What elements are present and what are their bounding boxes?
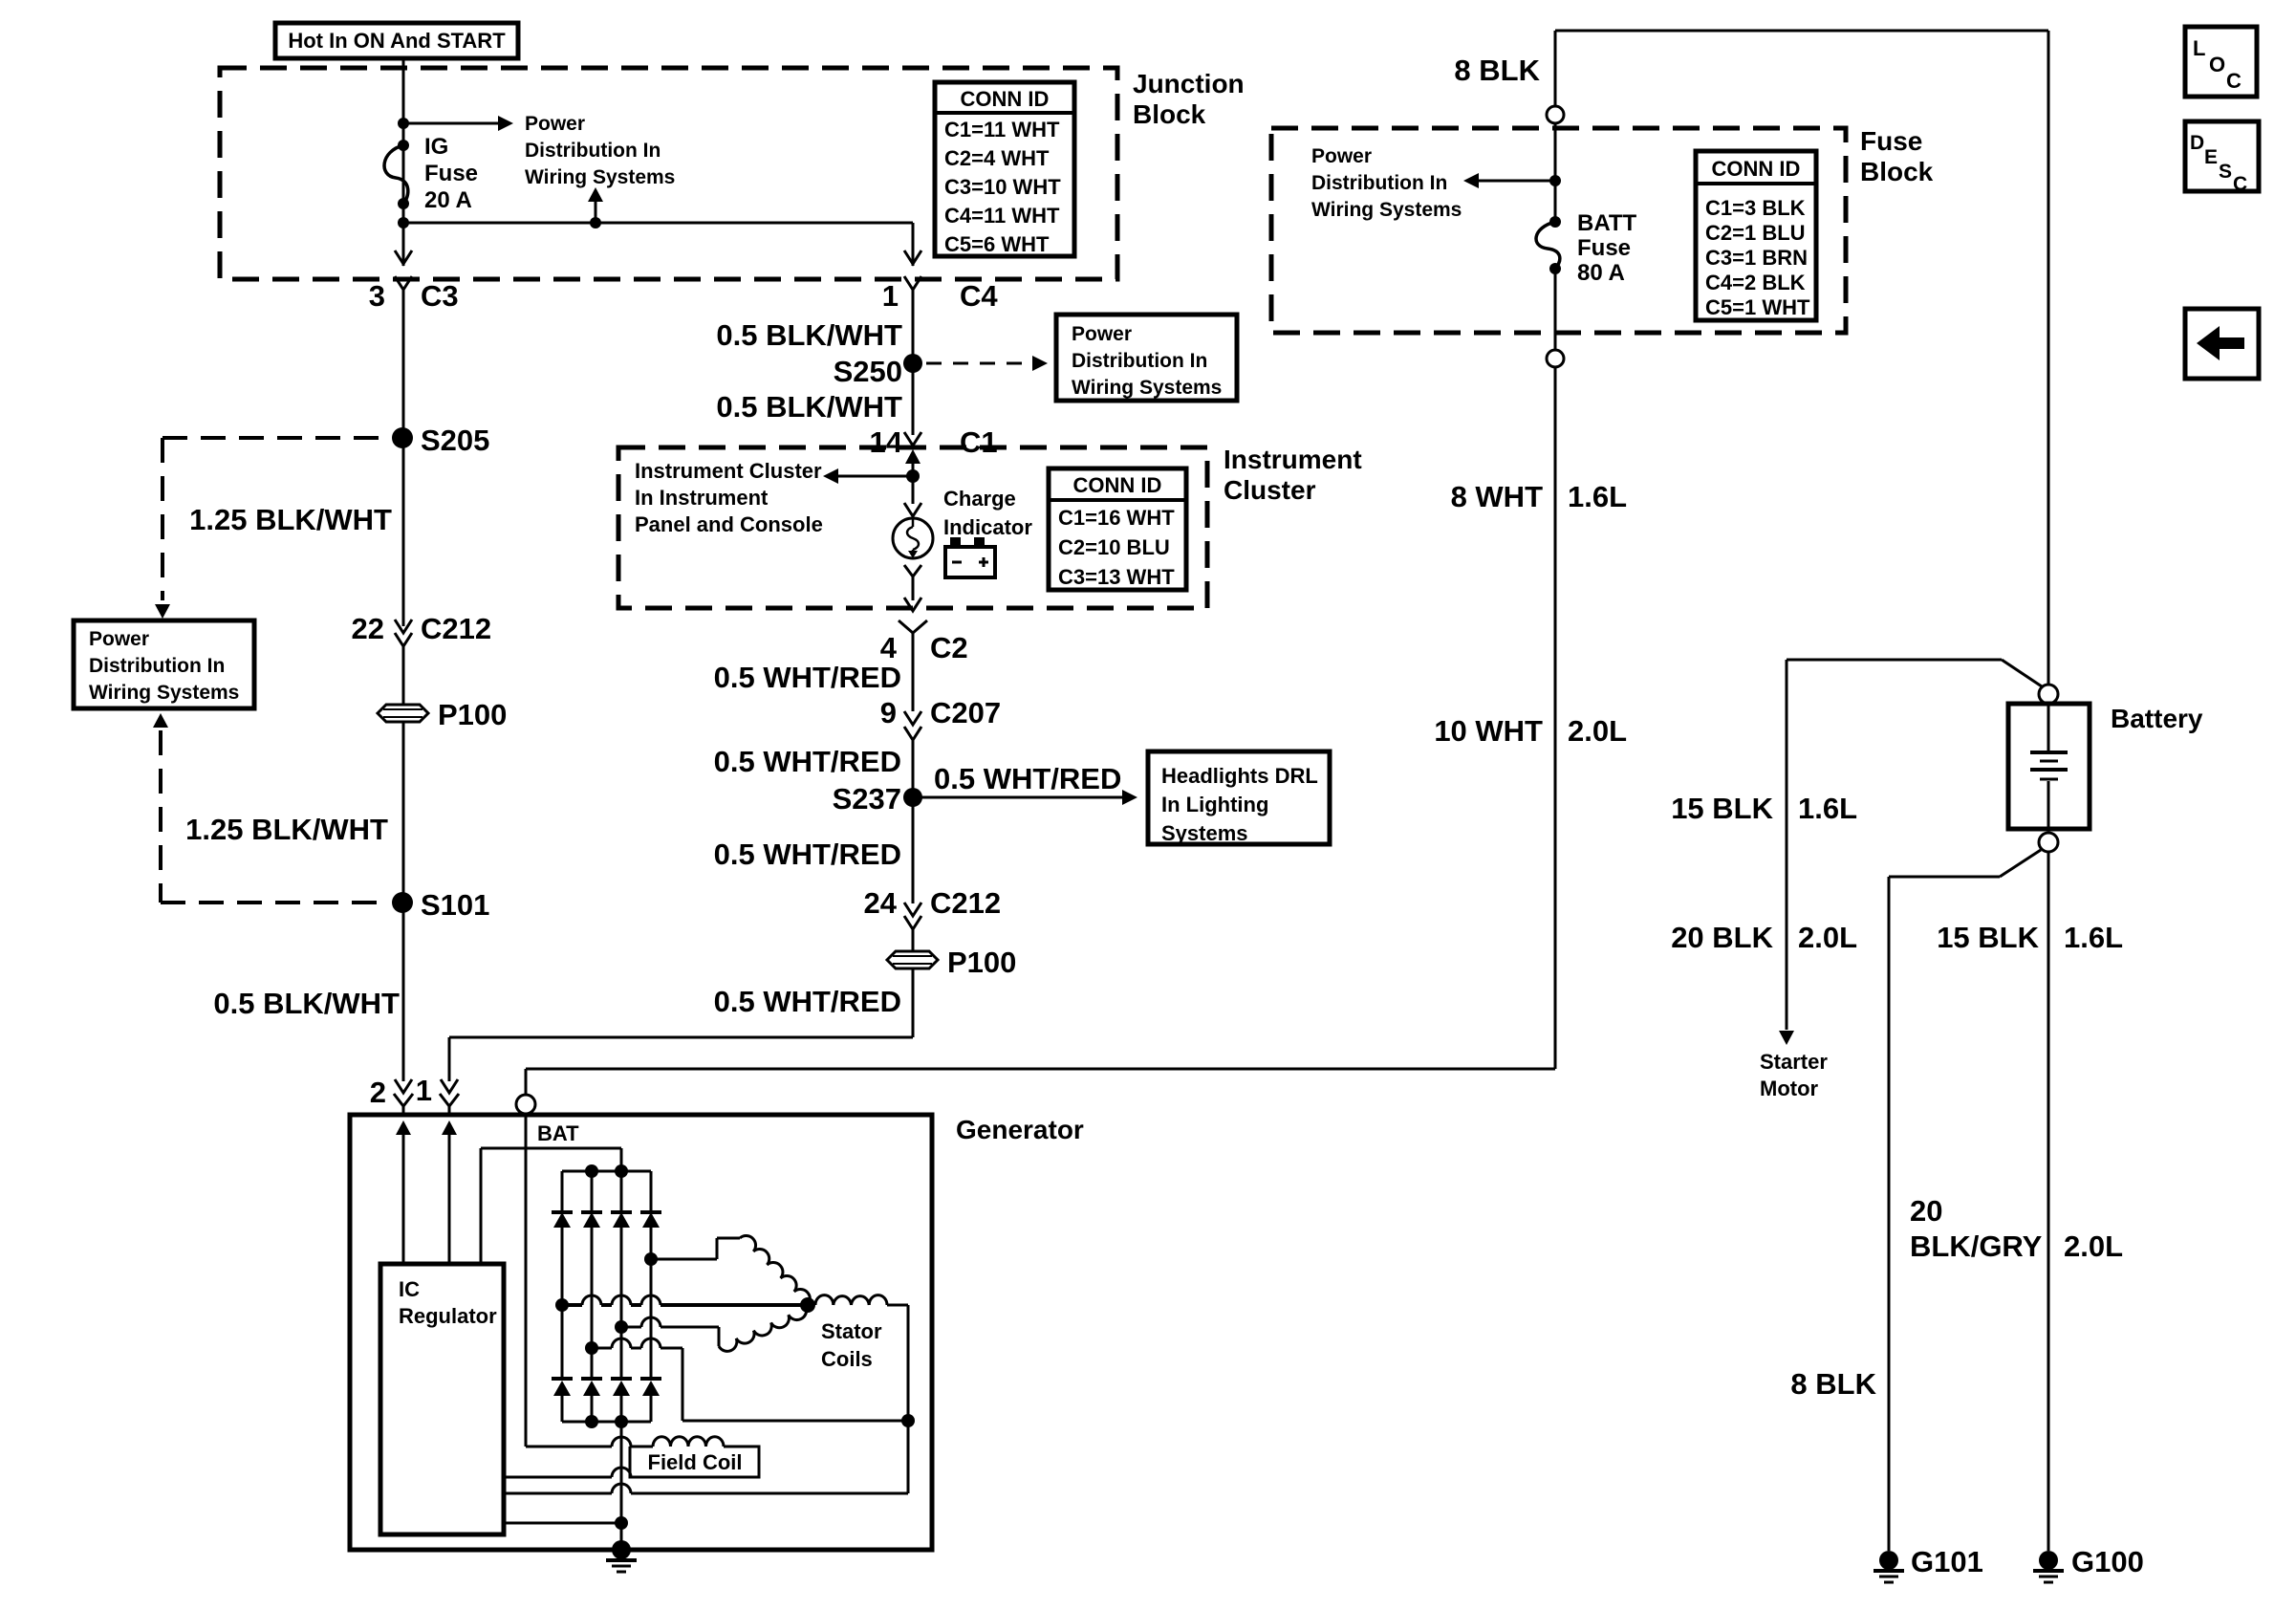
svg-text:C2=10 BLU: C2=10 BLU [1058, 535, 1170, 559]
stator phase A wire [555, 1298, 569, 1312]
CONN ID table (instrument cluster) [1049, 468, 1186, 590]
wire C212 to P100 [402, 646, 405, 705]
svg-text:C1=11 WHT: C1=11 WHT [944, 118, 1060, 141]
svg-text:C212: C212 [930, 886, 1001, 920]
wire from Hot In down into junction block [402, 58, 405, 266]
connector at generator pin 2 [395, 1079, 412, 1093]
svg-text:22: 22 [352, 612, 384, 645]
svg-text:BLK/GRY: BLK/GRY [1910, 1229, 2043, 1263]
svg-text:C4=11 WHT: C4=11 WHT [944, 204, 1060, 228]
svg-text:1.6L: 1.6L [2064, 921, 2123, 954]
svg-text:0.5 BLK/WHT: 0.5 BLK/WHT [716, 318, 902, 352]
svg-text:Battery: Battery [2111, 704, 2203, 733]
arrow up to Wiring Systems text [595, 200, 597, 223]
splice S101 [392, 892, 413, 913]
node: fuse block junction dot [1549, 175, 1561, 186]
svg-text:Generator: Generator [956, 1115, 1084, 1144]
svg-text:BAT: BAT [537, 1121, 579, 1145]
fuse IG Fuse 20 A [398, 140, 409, 151]
battery box [2008, 704, 2090, 829]
svg-text:S237: S237 [833, 782, 901, 816]
svg-text:0.5 WHT/RED: 0.5 WHT/RED [714, 838, 901, 871]
svg-text:Fuse: Fuse [1577, 235, 1631, 261]
svg-text:0.5 WHT/RED: 0.5 WHT/RED [714, 985, 901, 1018]
splice S250 [903, 354, 922, 373]
svg-text:Motor: Motor [1760, 1077, 1819, 1100]
battery pictograph icon [950, 537, 961, 548]
pass-through grommet P100 (middle) [887, 951, 938, 968]
fuse BATT Fuse 80 A [1549, 216, 1561, 228]
svg-text:C2=1 BLU: C2=1 BLU [1705, 221, 1806, 245]
connector C3 at junction block bottom [395, 250, 412, 264]
svg-text:C1=16 WHT: C1=16 WHT [1058, 506, 1175, 530]
svg-text:O: O [2209, 53, 2225, 76]
wire: junction block internal bus [403, 222, 913, 225]
wire 0.5 BLK/WHT S101 to generator pin 2 [402, 903, 405, 1081]
svg-text:P100: P100 [947, 946, 1016, 979]
dashed link S101 to Power Distribution box [153, 713, 168, 728]
svg-text:2.0L: 2.0L [1798, 921, 1857, 954]
svg-text:Block: Block [1860, 157, 1934, 186]
svg-text:80 A: 80 A [1577, 260, 1625, 286]
rectifier diodes top row [561, 1171, 564, 1212]
wire 0.5 WHT/RED to Headlights DRL [913, 796, 1122, 799]
charge indicator lamp [912, 476, 915, 504]
connector C4 at junction block bottom [904, 250, 921, 264]
svg-text:Fuse: Fuse [424, 161, 478, 186]
svg-text:S101: S101 [421, 888, 489, 922]
generator internal ground wire [620, 1422, 623, 1550]
wire from top bus down to battery + [2047, 31, 2050, 685]
arrow to starter motor [1779, 1031, 1794, 1045]
svg-text:C207: C207 [930, 696, 1001, 729]
svg-text:BATT: BATT [1577, 210, 1637, 236]
wire to P100 [912, 929, 915, 950]
wire 8 BLK top bus [1555, 30, 2048, 33]
svg-text:Instrument Cluster: Instrument Cluster [635, 459, 822, 483]
svg-text:1.25 BLK/WHT: 1.25 BLK/WHT [189, 503, 392, 536]
svg-text:Headlights DRL: Headlights DRL [1161, 764, 1318, 788]
generator box [350, 1115, 932, 1550]
svg-text:C3=13 WHT: C3=13 WHT [1058, 565, 1175, 589]
svg-text:Wiring Systems: Wiring Systems [525, 166, 675, 188]
IC regulator wire 3 to ground wire [504, 1522, 621, 1525]
svg-text:Power: Power [525, 113, 585, 135]
svg-text:Hot In ON And START: Hot In ON And START [288, 29, 506, 53]
svg-text:C4: C4 [960, 279, 998, 313]
pass-through grommet P100 (left) [378, 705, 428, 722]
splice S205 [392, 427, 413, 448]
svg-text:E: E [2204, 146, 2218, 168]
CONN ID table (junction block) [935, 82, 1074, 256]
wire battery - to G100 ground [2047, 852, 2050, 1551]
dashed link S205 to Power Distribution box [162, 436, 388, 440]
svg-text:C3: C3 [421, 279, 459, 313]
arrow left to Power Distribution (fuse block) [1479, 180, 1555, 183]
svg-text:Distribution In: Distribution In [89, 655, 225, 677]
svg-text:20 BLK: 20 BLK [1671, 921, 1773, 954]
svg-text:C1: C1 [960, 425, 998, 459]
wire BAT internal down to field coil [525, 1114, 528, 1447]
wire BAT junction to rectifier feed [481, 1147, 621, 1150]
svg-text:Systems: Systems [1161, 821, 1248, 845]
node: up-arrow junction dot [590, 217, 601, 228]
connector ring at fuse block bottom [1547, 350, 1564, 367]
generator case ground [612, 1540, 631, 1559]
svg-text:Indicator: Indicator [943, 515, 1032, 539]
wire into fuse block [1554, 123, 1557, 222]
ground G101 [1879, 1551, 1898, 1570]
power distribution box (left) [74, 620, 254, 708]
svg-text:1: 1 [882, 279, 899, 313]
junction block J dashed box [220, 68, 1117, 279]
svg-text:15 BLK: 15 BLK [1671, 792, 1773, 825]
rectifier diodes bottom row [552, 1377, 573, 1381]
svg-text:14: 14 [870, 425, 903, 459]
svg-text:S205: S205 [421, 424, 489, 457]
svg-text:C212: C212 [421, 612, 491, 645]
svg-text:8 BLK: 8 BLK [1454, 54, 1540, 87]
connector C2 pin 4 below cluster [899, 620, 927, 633]
stator coil (lower diagonal) [719, 1338, 737, 1352]
svg-text:0.5 BLK/WHT: 0.5 BLK/WHT [213, 987, 400, 1020]
svg-text:IG: IG [424, 134, 448, 160]
svg-text:10 WHT: 10 WHT [1434, 714, 1543, 748]
svg-text:C3=1 BRN: C3=1 BRN [1705, 246, 1808, 270]
stator phase B wire [644, 1252, 658, 1266]
svg-text:Panel and Console: Panel and Console [635, 512, 823, 536]
svg-text:G101: G101 [1911, 1545, 1983, 1578]
rectifier top bus [562, 1170, 651, 1173]
IC regulator wire 2 to stator bus [504, 1492, 612, 1495]
svg-text:Distribution In: Distribution In [525, 140, 661, 162]
svg-text:1.6L: 1.6L [1568, 480, 1627, 513]
svg-text:Block: Block [1133, 99, 1206, 129]
wire 0.5 WHT/RED P100 to generator pin 1 [912, 968, 915, 1037]
svg-text:Instrument: Instrument [1224, 445, 1362, 474]
svg-text:24: 24 [864, 886, 898, 920]
wire 0.5 WHT/RED S237 to C212 [912, 797, 915, 903]
svg-text:Junction: Junction [1133, 69, 1245, 98]
svg-text:In Lighting: In Lighting [1161, 793, 1268, 816]
svg-text:Distribution In: Distribution In [1311, 172, 1447, 194]
wire 0.5 WHT/RED C2 to C207 [912, 633, 915, 711]
wire down to fuse block [1554, 31, 1557, 106]
svg-text:8 WHT: 8 WHT [1451, 480, 1544, 513]
svg-text:Power: Power [1072, 323, 1132, 345]
wire down to C4 connector [912, 223, 915, 266]
stator phase C wire [615, 1320, 628, 1334]
ground G100 [2039, 1551, 2058, 1570]
stator delta node [800, 1297, 815, 1313]
svg-text:Starter: Starter [1760, 1050, 1828, 1074]
svg-text:0.5 BLK/WHT: 0.5 BLK/WHT [716, 390, 902, 424]
svg-text:Charge: Charge [943, 487, 1016, 511]
arrow left to Instrument Cluster text [838, 475, 913, 478]
arrows into IC regulator from pins [396, 1120, 411, 1135]
rectifier bottom bus [562, 1421, 651, 1424]
node: junction dot to power distribution arrow [398, 118, 409, 129]
svg-text:Regulator: Regulator [399, 1304, 497, 1328]
svg-text:Wiring Systems: Wiring Systems [1311, 199, 1462, 221]
wire 1.25 BLK/WHT from C3 to S205 [402, 290, 405, 626]
battery + terminal ring [2039, 685, 2058, 704]
svg-text:Distribution In: Distribution In [1072, 350, 1207, 372]
IC regulator wire 1 to field coil box [504, 1476, 612, 1479]
CONN ID table (fuse block) [1696, 151, 1816, 320]
power label "Hot In ON And START" [275, 23, 518, 58]
svg-text:P100: P100 [438, 698, 507, 731]
IC regulator box [380, 1264, 504, 1534]
wire 1.25 BLK/WHT P100 to S101 [402, 722, 405, 903]
svg-text:L: L [2193, 36, 2205, 60]
svg-text:Fuse: Fuse [1860, 126, 1922, 156]
svg-text:Wiring Systems: Wiring Systems [1072, 377, 1222, 399]
fuse block dashed box [1271, 128, 1846, 333]
wire 8 WHT / 10 WHT down to generator BAT [1554, 367, 1557, 1069]
BAT terminal ring [516, 1095, 535, 1114]
svg-text:2.0L: 2.0L [2064, 1229, 2123, 1263]
wire 0.5 BLK/WHT C4 to S250 [912, 290, 915, 435]
connector ring at fuse block top [1547, 106, 1564, 123]
node: bus junction dot [398, 217, 409, 228]
svg-text:In Instrument: In Instrument [635, 486, 769, 510]
svg-text:20 A: 20 A [424, 187, 472, 213]
wire turns left to BAT terminal [526, 1068, 1555, 1071]
svg-text:S250: S250 [834, 355, 902, 388]
field coil with label box [526, 1446, 612, 1448]
svg-text:Power: Power [89, 628, 149, 650]
svg-text:0.5 WHT/RED: 0.5 WHT/RED [714, 661, 901, 694]
svg-text:1.25 BLK/WHT: 1.25 BLK/WHT [185, 813, 388, 846]
svg-text:8 BLK: 8 BLK [1790, 1367, 1876, 1401]
arrow to Power Distribution In Wiring Systems [403, 122, 498, 125]
svg-text:C3=10 WHT: C3=10 WHT [944, 175, 1061, 199]
svg-text:Power: Power [1311, 145, 1372, 167]
svg-text:C2: C2 [930, 631, 968, 664]
svg-text:4: 4 [880, 631, 898, 664]
svg-text:C5=6 WHT: C5=6 WHT [944, 232, 1050, 256]
svg-text:Stator: Stator [821, 1319, 882, 1343]
power distribution box (S250) [1056, 315, 1237, 401]
svg-text:D: D [2190, 132, 2204, 154]
stator right bus [907, 1305, 910, 1493]
wire to starter motor branch [1787, 659, 2002, 662]
stator coil (right horizontal) [815, 1295, 834, 1305]
svg-text:C4=2 BLK: C4=2 BLK [1705, 271, 1806, 294]
svg-text:Field Coil: Field Coil [648, 1450, 743, 1474]
svg-text:C5=1 WHT: C5=1 WHT [1705, 295, 1810, 319]
stator phase D wire to right bus [585, 1341, 598, 1355]
svg-text:C1=3 BLK: C1=3 BLK [1705, 196, 1806, 220]
svg-text:C: C [2233, 173, 2247, 195]
node: cluster junction dot [906, 469, 920, 483]
svg-text:3: 3 [369, 279, 385, 313]
svg-text:Wiring Systems: Wiring Systems [89, 682, 239, 704]
connector at generator pin 1 [441, 1079, 458, 1093]
battery - terminal ring [2039, 833, 2058, 852]
svg-text:20: 20 [1910, 1194, 1942, 1228]
LOC legend box [2185, 27, 2257, 97]
svg-text:IC: IC [399, 1277, 420, 1301]
wire battery - to body ground branch [2000, 850, 2041, 877]
svg-text:0.5 WHT/RED: 0.5 WHT/RED [934, 762, 1121, 795]
stator coil (upper diagonal) [740, 1236, 756, 1251]
arrow into cluster from C1 [905, 449, 921, 464]
instrument cluster dashed box [618, 447, 1207, 608]
svg-text:0.5 WHT/RED: 0.5 WHT/RED [714, 745, 901, 778]
wire 0.5 WHT/RED C207 to S237 [912, 740, 915, 797]
svg-text:2.0L: 2.0L [1568, 714, 1627, 748]
svg-text:2: 2 [370, 1076, 386, 1109]
svg-text:1: 1 [416, 1074, 432, 1107]
svg-text:9: 9 [880, 696, 897, 729]
svg-text:CONN ID: CONN ID [1712, 157, 1801, 181]
svg-text:Coils: Coils [821, 1347, 873, 1371]
wire out of fuse block [1554, 269, 1557, 350]
svg-text:15 BLK: 15 BLK [1937, 921, 2039, 954]
battery cell symbol [2047, 704, 2050, 751]
svg-text:G100: G100 [2071, 1545, 2144, 1578]
svg-text:C2=4 WHT: C2=4 WHT [944, 146, 1050, 170]
svg-text:S: S [2219, 161, 2232, 183]
back-arrow legend box [2185, 309, 2259, 379]
DESC legend box [2185, 121, 2259, 191]
splice S237 [903, 788, 922, 807]
headlights DRL box [1148, 751, 1330, 844]
dashed arrow S250 to power distribution box [926, 362, 1023, 365]
svg-text:Cluster: Cluster [1224, 475, 1316, 505]
svg-text:CONN ID: CONN ID [961, 87, 1050, 111]
svg-text:1.6L: 1.6L [1798, 792, 1857, 825]
svg-text:C: C [2226, 69, 2242, 93]
wire turns left to generator [449, 1036, 913, 1039]
svg-text:CONN ID: CONN ID [1073, 473, 1162, 497]
